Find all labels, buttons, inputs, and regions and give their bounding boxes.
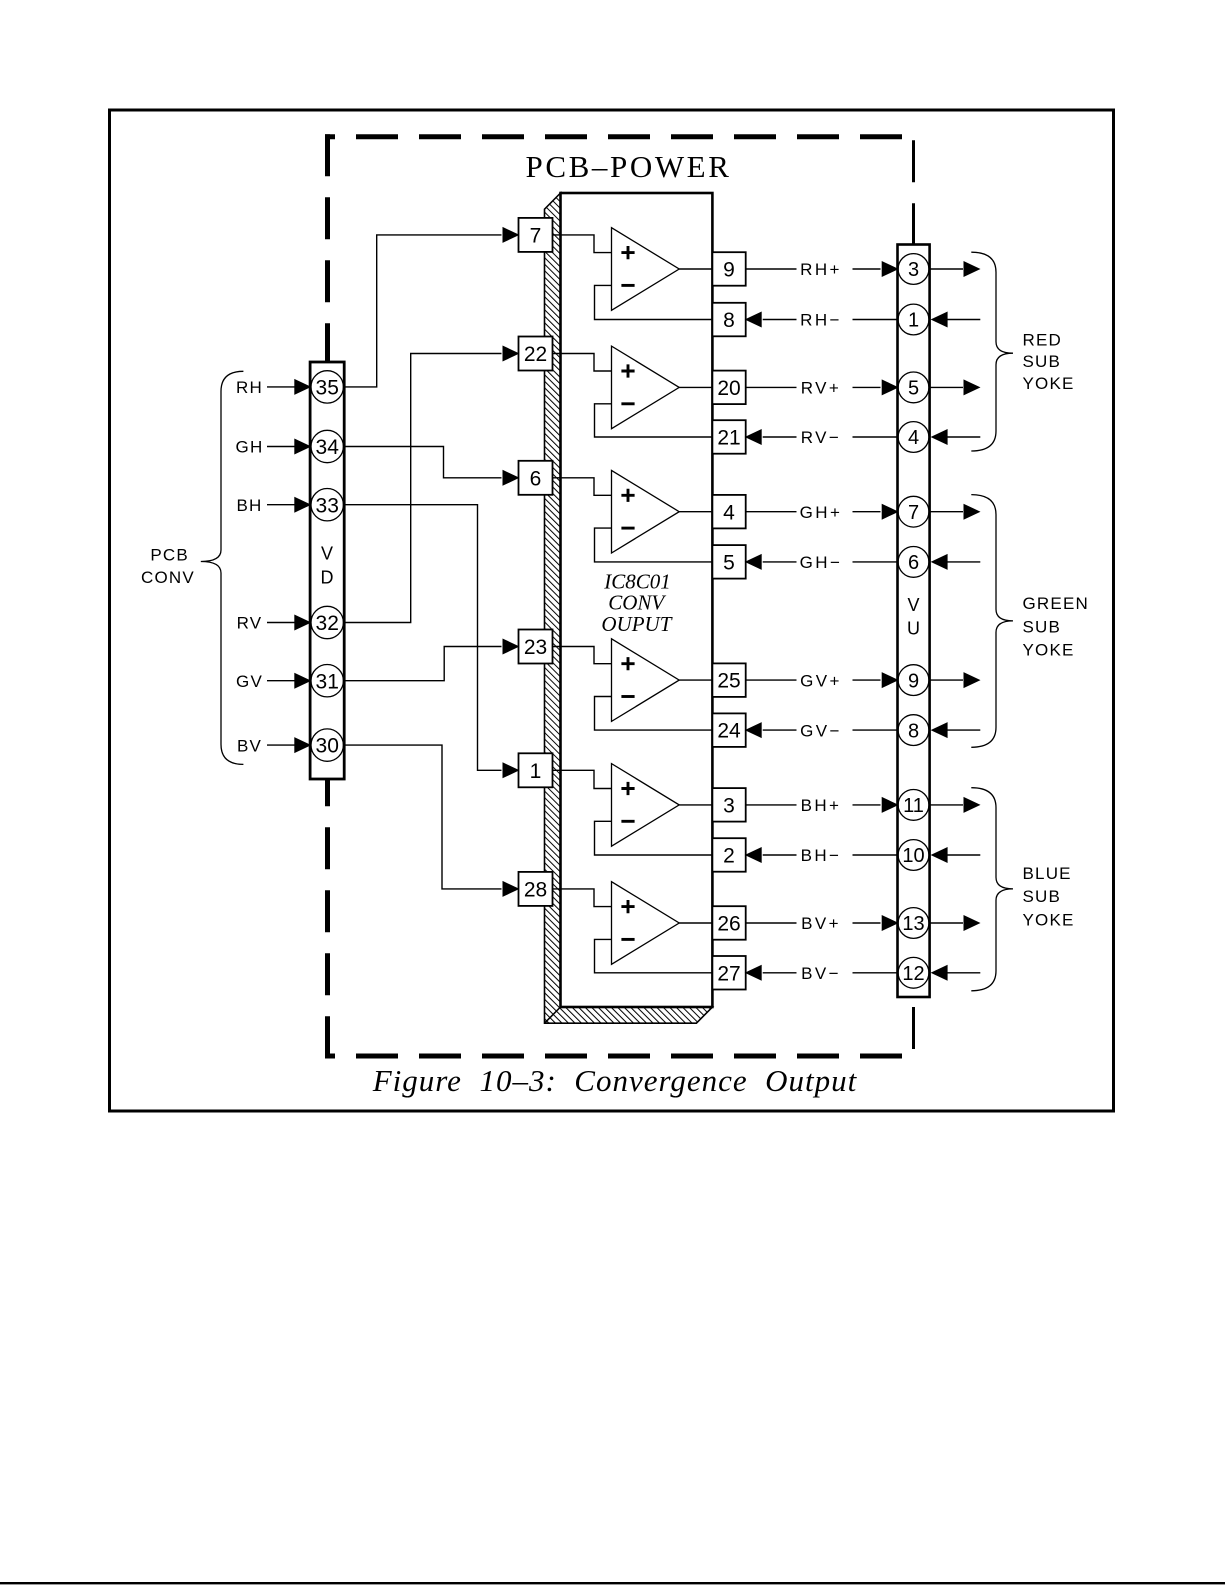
- brace BLUE SUB YOKE: [971, 788, 1013, 991]
- svg-text:27: 27: [717, 962, 740, 985]
- wire GH+ from pin 4: [746, 511, 797, 513]
- wire U3 output to pin 4: [679, 511, 712, 513]
- svg-text:4: 4: [908, 427, 919, 449]
- label IC8C01 CONV OUPUT: [601, 569, 672, 636]
- IC8C01 output pin 26 (BV+): [712, 906, 745, 940]
- IC8C01 feedback pin 24 (GV-): [712, 713, 745, 747]
- svg-text:3: 3: [908, 259, 919, 281]
- arrow into IC pin 22: [503, 346, 520, 362]
- op-amp U1 (RH channel): [612, 228, 680, 311]
- svg-text:RV−: RV−: [801, 428, 841, 447]
- svg-text:30: 30: [316, 735, 339, 758]
- arrow RV- return into VU pin 4: [931, 429, 948, 445]
- connector VU pin 9 (GV+): [898, 665, 929, 696]
- svg-text:YOKE: YOKE: [1023, 911, 1075, 930]
- svg-text:13: 13: [902, 913, 924, 935]
- wire GH from VD pin 34 to IC pin 6: [344, 447, 501, 478]
- svg-text:OUPUT: OUPUT: [601, 612, 672, 636]
- wire GH+ to yoke: [930, 511, 963, 513]
- wire U1 inverting input feedback from pin 8: [595, 285, 713, 319]
- wire GV to connector VD: [267, 680, 295, 682]
- wire RH from VD pin 35 to IC pin 7: [344, 235, 501, 387]
- wire BH- at connector VU: [853, 854, 898, 856]
- connector VD pin 32 (RV): [311, 606, 343, 638]
- wire BH to connector VD: [267, 504, 295, 506]
- arrow RH- into pin 8: [745, 312, 762, 328]
- connector VU body: [898, 245, 930, 998]
- arrow BV into VD pin 30: [294, 737, 311, 753]
- label RED SUB YOKE: [1023, 330, 1075, 392]
- arrow GV+ output: [964, 672, 981, 688]
- svg-text:YOKE: YOKE: [1023, 641, 1075, 660]
- svg-text:Figure 10–3: Convergence Ou: Figure 10–3: Convergence Output: [372, 1063, 858, 1098]
- IC8C01 output pin 3 (BH+): [712, 788, 745, 822]
- svg-text:V: V: [907, 595, 919, 615]
- wire IC pin 23 to U4 noninverting input: [553, 647, 612, 664]
- arrow into IC pin 7: [503, 227, 520, 243]
- svg-text:BH+: BH+: [801, 796, 842, 815]
- wire U6 inverting input feedback from pin 27: [595, 939, 713, 972]
- wire U5 output to pin 3: [679, 804, 712, 806]
- svg-text:8: 8: [908, 720, 919, 742]
- op-amp U2 (RV channel): [612, 346, 680, 429]
- arrow GH into VD pin 34: [294, 439, 311, 455]
- IC8C01 output pin 4 (GH+): [712, 495, 745, 529]
- svg-text:5: 5: [723, 552, 735, 575]
- label GREEN SUB YOKE: [1023, 594, 1089, 660]
- label V D on connector VD: [321, 544, 334, 588]
- svg-text:GV: GV: [236, 672, 263, 691]
- wire BH- from connector VU: [763, 854, 797, 856]
- connector VU pin 13 (BV+): [898, 908, 929, 939]
- svg-text:21: 21: [717, 427, 740, 450]
- connector VD pin 34 (GH): [311, 430, 343, 462]
- arrow BV+ into VU pin 13: [882, 915, 899, 931]
- wire IC pin 22 to U2 noninverting input: [553, 354, 612, 372]
- wire GV- from connector VU: [763, 729, 797, 731]
- wire U6 output to pin 26: [679, 922, 712, 924]
- op-amp U4 (GV channel): [612, 639, 680, 722]
- label PCB CONV: [141, 546, 195, 588]
- arrow BV- return into VU pin 12: [931, 965, 948, 981]
- svg-text:9: 9: [723, 259, 735, 282]
- svg-text:7: 7: [908, 502, 919, 524]
- label BLUE SUB YOKE: [1023, 864, 1075, 930]
- svg-text:GH+: GH+: [800, 503, 843, 522]
- svg-text:BV+: BV+: [801, 914, 841, 933]
- svg-text:RH: RH: [236, 378, 263, 397]
- svg-text:V: V: [321, 544, 333, 564]
- arrow BV+ output: [964, 915, 981, 931]
- connector VU pin 7 (GH+): [898, 496, 929, 527]
- arrow RH- return into VU pin 1: [931, 312, 948, 328]
- svg-text:7: 7: [530, 225, 542, 248]
- connector VD pin 30 (BV): [311, 729, 343, 761]
- page bottom rule: [0, 1582, 1225, 1584]
- arrow RH+ output: [964, 261, 981, 277]
- svg-text:BH: BH: [236, 496, 262, 515]
- IC8C01 input pin 1: [519, 753, 553, 787]
- wire BH- return from yoke: [947, 854, 981, 856]
- svg-text:2: 2: [723, 845, 735, 868]
- arrow BH- into pin 2: [745, 847, 762, 863]
- wire U2 output to pin 20: [679, 386, 712, 388]
- svg-text:12: 12: [902, 963, 924, 985]
- svg-text:9: 9: [908, 670, 919, 692]
- arrow GH+ into VU pin 7: [882, 504, 899, 520]
- wire GV+ from pin 25: [746, 679, 797, 681]
- label V U on connector VU: [907, 595, 920, 639]
- svg-text:RV+: RV+: [801, 379, 841, 398]
- svg-text:U: U: [907, 619, 920, 639]
- wire IC pin 28 to U6 noninverting input: [553, 889, 612, 907]
- wire BH+ to yoke: [930, 804, 963, 806]
- svg-text:22: 22: [524, 343, 547, 366]
- svg-text:BV: BV: [237, 736, 262, 755]
- svg-text:1: 1: [530, 760, 542, 783]
- arrow GV- into pin 24: [745, 722, 762, 738]
- arrow RV+ into VU pin 5: [882, 379, 899, 395]
- wire GH- at connector VU: [853, 561, 898, 563]
- wire RH to connector VD: [267, 386, 295, 388]
- svg-text:BH−: BH−: [801, 846, 842, 865]
- arrow GH+ output: [964, 504, 981, 520]
- arrow RH+ into VU pin 3: [882, 261, 899, 277]
- svg-text:SUB: SUB: [1023, 887, 1062, 906]
- svg-text:PCB: PCB: [150, 546, 189, 565]
- arrow GH- into pin 5: [745, 554, 762, 570]
- arrow BV- into pin 27: [745, 965, 762, 981]
- connector VU pin 5 (RV+): [898, 372, 929, 403]
- svg-text:CONV: CONV: [141, 568, 195, 587]
- wire RH+ from pin 9: [746, 268, 797, 270]
- arrow RH into VD pin 35: [294, 379, 311, 395]
- arrow into IC pin 28: [503, 881, 520, 897]
- svg-text:28: 28: [524, 879, 547, 902]
- brace RED SUB YOKE: [971, 252, 1013, 451]
- wire U5 inverting input feedback from pin 2: [595, 821, 713, 855]
- svg-text:6: 6: [908, 552, 919, 574]
- svg-text:GV+: GV+: [800, 671, 842, 690]
- svg-text:25: 25: [717, 670, 740, 693]
- PCB-POWER dashed boundary right edge lower segment: [912, 997, 915, 1056]
- svg-text:32: 32: [316, 612, 339, 635]
- svg-text:D: D: [321, 568, 334, 588]
- wire U3 inverting input feedback from pin 5: [595, 528, 713, 562]
- svg-text:RV: RV: [237, 614, 263, 633]
- arrow GH- return into VU pin 6: [931, 554, 948, 570]
- IC8C01 feedback pin 2 (BH-): [712, 838, 745, 872]
- svg-text:3: 3: [723, 795, 735, 818]
- connector VU pin 11 (BH+): [898, 790, 929, 821]
- brace GREEN SUB YOKE: [971, 495, 1013, 748]
- wire GH- return from yoke: [947, 561, 981, 563]
- wire RH+ to connector VU: [853, 268, 881, 270]
- wire U4 output to pin 25: [679, 679, 712, 681]
- svg-text:4: 4: [723, 501, 735, 524]
- PCB-POWER dashed boundary right edge upper segment: [912, 134, 915, 244]
- svg-text:31: 31: [316, 670, 339, 693]
- svg-text:26: 26: [717, 913, 740, 936]
- wire RH- at connector VU: [853, 319, 898, 321]
- wire BH+ to connector VU: [853, 804, 881, 806]
- svg-text:23: 23: [524, 636, 547, 659]
- wire RV from VD pin 32 to IC pin 22: [344, 354, 501, 623]
- op-amp U5 (BH channel): [612, 764, 680, 847]
- op-amp U3 (GH channel): [612, 470, 680, 553]
- IC8C01 input pin 6: [519, 461, 553, 495]
- arrow BH+ into VU pin 11: [882, 797, 899, 813]
- svg-text:RH+: RH+: [800, 260, 842, 279]
- connector VD pin 33 (BH): [311, 489, 343, 521]
- svg-text:1: 1: [908, 310, 919, 332]
- wire BV- from connector VU: [763, 972, 797, 974]
- wire GH to connector VD: [267, 446, 295, 448]
- IC8C01 output pin 9 (RH+): [712, 252, 745, 286]
- wire RV- at connector VU: [853, 436, 898, 438]
- wire RV to connector VD: [267, 622, 295, 624]
- svg-text:GH: GH: [236, 438, 264, 457]
- arrow GV into VD pin 31: [294, 673, 311, 689]
- wire GH- from connector VU: [763, 561, 797, 563]
- connector VD pin 35 (RH): [311, 371, 343, 403]
- connector VD body: [310, 362, 344, 779]
- svg-text:10: 10: [902, 845, 924, 867]
- wire IC pin 6 to U3 noninverting input: [553, 478, 612, 496]
- connector VU pin 12 (BV-): [898, 957, 929, 988]
- wire BV- return from yoke: [947, 972, 981, 974]
- wire RH+ to yoke: [930, 268, 963, 270]
- wire BV+ to connector VU: [853, 922, 881, 924]
- arrow RV into VD pin 32: [294, 615, 311, 631]
- wire RV- from connector VU: [763, 436, 797, 438]
- wire U2 inverting input feedback from pin 21: [595, 404, 713, 437]
- wire GV- return from yoke: [947, 729, 981, 731]
- svg-text:YOKE: YOKE: [1023, 374, 1075, 393]
- svg-text:PCB–POWER: PCB–POWER: [526, 149, 732, 184]
- svg-text:SUB: SUB: [1023, 617, 1062, 636]
- wire BV+ to yoke: [930, 922, 963, 924]
- wire BV from VD pin 30 to IC pin 28: [344, 745, 501, 889]
- svg-text:20: 20: [717, 377, 740, 400]
- connector VU pin 6 (GH-): [898, 547, 929, 578]
- arrow GV+ into VU pin 9: [882, 672, 899, 688]
- svg-text:RED: RED: [1023, 330, 1063, 349]
- connector VU pin 4 (RV-): [898, 422, 929, 453]
- IC8C01 input pin 22: [519, 337, 553, 371]
- svg-text:RH−: RH−: [800, 311, 842, 330]
- IC8C01 feedback pin 27 (BV-): [712, 956, 745, 990]
- IC8C01 output pin 25 (GV+): [712, 663, 745, 697]
- wire RH- from connector VU: [763, 319, 797, 321]
- wire U1 output to pin 9: [679, 268, 712, 270]
- connector VU pin 10 (BH-): [898, 840, 929, 871]
- IC8C01 feedback pin 8 (RH-): [712, 303, 745, 337]
- IC8C01 input pin 7: [519, 218, 553, 252]
- arrow BH into VD pin 33: [294, 497, 311, 513]
- IC8C01 feedback pin 5 (GH-): [712, 545, 745, 579]
- svg-text:33: 33: [316, 494, 339, 517]
- connector VU pin 3 (RH+): [898, 254, 929, 285]
- arrow into IC pin 1: [503, 762, 520, 778]
- svg-text:GREEN: GREEN: [1023, 594, 1089, 613]
- wire RH- return from yoke: [947, 319, 981, 321]
- wire BV+ from pin 26: [746, 922, 797, 924]
- arrow BH- return into VU pin 10: [931, 847, 948, 863]
- PCB-POWER dashed boundary left edge: [325, 134, 330, 1056]
- wire GV- at connector VU: [853, 729, 898, 731]
- wire GV+ to yoke: [930, 679, 963, 681]
- figure outer border: [110, 110, 1114, 1111]
- arrow RV- into pin 21: [745, 429, 762, 445]
- wire BH from VD pin 33 to IC pin 1: [344, 505, 501, 771]
- svg-text:11: 11: [903, 795, 924, 817]
- connector VU pin 8 (GV-): [898, 715, 929, 746]
- wire GV from VD pin 31 to IC pin 23: [344, 647, 501, 681]
- connector VD pin 31 (GV): [311, 665, 343, 697]
- arrow into IC pin 6: [503, 470, 520, 486]
- svg-text:GV−: GV−: [800, 721, 842, 740]
- IC8C01 input pin 23: [519, 630, 553, 664]
- svg-text:BV−: BV−: [801, 964, 841, 983]
- connector VU pin 1 (RH-): [898, 304, 929, 335]
- svg-text:24: 24: [717, 720, 741, 743]
- IC8C01 bevel hatched band: [545, 193, 713, 1023]
- IC8C01 body front face: [561, 193, 713, 1007]
- wire GH+ to connector VU: [853, 511, 881, 513]
- wire BV to connector VD: [267, 744, 295, 746]
- wire RV+ to yoke: [930, 386, 963, 388]
- svg-text:34: 34: [316, 436, 340, 459]
- wire GV+ to connector VU: [853, 679, 881, 681]
- arrow GV- return into VU pin 8: [931, 722, 948, 738]
- IC8C01 input pin 28: [519, 872, 553, 906]
- wire U4 inverting input feedback from pin 24: [595, 697, 713, 731]
- wire RV+ to connector VU: [853, 386, 881, 388]
- brace PCB CONV: [201, 371, 244, 764]
- PCB-POWER dashed boundary top edge: [325, 134, 914, 139]
- IC8C01 feedback pin 21 (RV-): [712, 420, 745, 454]
- svg-text:8: 8: [723, 309, 735, 332]
- svg-text:6: 6: [530, 467, 542, 490]
- svg-text:5: 5: [908, 378, 919, 400]
- wire BH+ from pin 3: [746, 804, 797, 806]
- svg-text:BLUE: BLUE: [1023, 864, 1072, 883]
- wire RV+ from pin 20: [746, 386, 797, 388]
- IC8C01 output pin 20 (RV+): [712, 371, 745, 405]
- svg-text:35: 35: [316, 377, 339, 400]
- svg-text:SUB: SUB: [1023, 352, 1062, 371]
- wire IC pin 1 to U5 noninverting input: [553, 770, 612, 788]
- arrow RV+ output: [964, 379, 981, 395]
- op-amp U6 (BV channel): [612, 882, 680, 965]
- wire RV- return from yoke: [947, 436, 981, 438]
- arrow BH+ output: [964, 797, 981, 813]
- PCB-POWER dashed boundary bottom edge: [325, 1054, 914, 1059]
- arrow into IC pin 23: [503, 639, 520, 655]
- wire IC pin 7 to U1 noninverting input: [553, 235, 612, 253]
- wire BV- at connector VU: [853, 972, 898, 974]
- svg-text:GH−: GH−: [800, 553, 843, 572]
